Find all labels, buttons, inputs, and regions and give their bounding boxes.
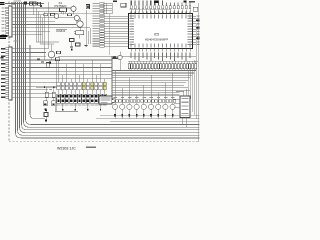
highlight bar column 7 — [82, 82, 85, 89]
IC5 bottom pin 15 — [185, 49, 187, 52]
transistor Q16 — [156, 104, 161, 109]
resistor R71 — [52, 92, 55, 98]
connector CN2 pin 6 — [6, 67, 9, 69]
IC5 left pin 3 with net label — [104, 7, 112, 9]
wire CN1 pin 8 net — [12, 30, 50, 32]
wire Q12 emitter down — [128, 109, 130, 118]
transistor Q18 column feed — [172, 73, 174, 104]
wire IC7 left leads — [173, 98, 180, 100]
wire bottom bus extra b — [100, 115, 200, 117]
resistor R2-12 highlighted — [103, 86, 106, 89]
IC5 top edge pin pads — [131, 11, 132, 13]
resistor RA0-8 — [148, 64, 150, 69]
resistor RB8a — [169, 100, 172, 103]
component block S2 — [61, 94, 65, 103]
resistor RB7b — [166, 100, 169, 103]
label Q10 — [114, 97, 117, 98]
IC5 bottom pin 6 — [150, 49, 152, 52]
IC5 left pin 6 with net label — [104, 15, 128, 17]
IC5 left pin 16 with net label — [104, 40, 128, 42]
resistor R1-8 — [86, 82, 89, 85]
connector CN1 pin 4 — [6, 17, 9, 19]
component small box right of IC6 — [113, 99, 116, 103]
wire vertical drop B — [38, 11, 40, 41]
IC5 left pin 11 with net label — [104, 28, 128, 30]
connector CN2 pin 13 — [6, 93, 9, 95]
label Q14 — [142, 97, 145, 98]
resistor RB4a — [141, 100, 144, 103]
diode D4 — [118, 55, 122, 59]
transistor Q17 — [163, 104, 168, 109]
wire mid bus line M0 — [58, 55, 196, 57]
transistor Q13 column feed — [136, 95, 138, 104]
wire CN2 pin 3 net — [12, 55, 46, 57]
transistor Q12 — [127, 104, 132, 109]
wire bus left of IC5 c — [109, 14, 111, 55]
IC5 left pin 12 with net label — [104, 30, 128, 32]
pad IC5 right bold A — [196, 19, 199, 21]
wire CN1 pin 2 net — [12, 10, 64, 12]
wire row1 stubs 11 — [100, 85, 102, 88]
component block S3 — [65, 94, 69, 103]
IC5 top pin 5 — [146, 9, 148, 13]
left edge pad mark E — [0, 57, 3, 59]
connector CN1 pin 6 — [6, 24, 9, 26]
wire lower cluster drops — [46, 98, 48, 101]
wire row1 stubs 6 — [79, 85, 81, 88]
IC5 top pin 12 — [173, 9, 175, 13]
wire right edge vertical d — [192, 66, 194, 112]
IC5 bottom pin 14 — [181, 49, 183, 52]
resistor R62 — [44, 14, 48, 16]
resistor R1-11 — [99, 82, 102, 85]
wire drop x56b — [55, 97, 57, 111]
pad mark top-right A — [154, 1, 159, 3]
wire mid bus line M11 — [112, 94, 180, 96]
resistor R2-6 — [78, 86, 81, 89]
resistor R1-9 highlighted — [91, 82, 94, 85]
transistor Q12 column feed — [128, 78, 130, 104]
resistor RB7a — [162, 100, 165, 103]
resistor R63 — [51, 13, 55, 15]
crystal X3 — [76, 31, 84, 35]
wire CN1 pin 5 net — [12, 20, 55, 22]
wire IC7 top leads — [182, 91, 184, 96]
connector CN1 pin 5 — [6, 20, 9, 22]
connector CN1 pin 9 — [6, 34, 9, 36]
wire bottom bus extra a — [110, 121, 200, 123]
IC5 top pin 3 — [138, 9, 140, 13]
IC5 right pin 9 with net label — [193, 36, 196, 38]
wire Q3 leads — [79, 18, 81, 21]
wire bottom bus extra c — [96, 118, 200, 120]
capacitor C13 — [44, 113, 48, 117]
IC5 left pin 5 with net label — [104, 12, 112, 14]
resistor R70 — [45, 92, 48, 98]
IC5 top pin 4 — [142, 9, 144, 13]
wire row1 stubs 10 — [95, 85, 97, 88]
resistor RA0-4 — [137, 64, 139, 69]
label Q17 — [164, 97, 167, 98]
wire vertical drop D — [42, 18, 44, 45]
label block S2 — [61, 105, 65, 106]
wire right edge vertical c — [194, 60, 196, 115]
wire column feed 7 — [83, 64, 85, 83]
pad mark G1 — [71, 49, 73, 51]
pad mark top — [24, 2, 27, 5]
IC5 right pin 5 with net label — [193, 25, 196, 27]
IC5 top pin 11 — [169, 9, 171, 13]
resistor RB6b — [159, 100, 162, 103]
connector CN2 pin 4 — [6, 59, 9, 61]
connector CN2 pin 10 — [6, 81, 9, 83]
resistor RA0-10 — [154, 64, 156, 69]
connector CN1 body — [9, 6, 12, 37]
component block S4 — [69, 94, 73, 103]
IC5 left pin 8 with net label — [104, 20, 128, 22]
wire row1 stubs 8 — [87, 85, 89, 88]
pad mark Q5 — [49, 62, 51, 64]
component block S5 — [73, 94, 77, 103]
resistor RB2a — [126, 100, 129, 103]
IC5 bottom pin 3 — [138, 49, 140, 52]
resistor R1-2 — [61, 82, 64, 85]
pad Q16 — [157, 114, 159, 117]
resistor R2-5 — [74, 86, 77, 89]
wire Q4 leads — [73, 5, 75, 6]
IC5 left pin 18 with net label — [104, 45, 128, 47]
IC5 right pin 10 with net label — [193, 38, 196, 40]
wire row1 stubs 4 — [70, 85, 72, 88]
resistor R1-6 — [78, 82, 81, 85]
wire mid bus line M1 — [112, 70, 196, 72]
pad Q15 — [150, 114, 152, 117]
label block S3 — [65, 105, 69, 106]
wire row1 stubs 3 — [66, 85, 68, 88]
wire mid bus line M2 — [112, 72, 194, 74]
IC5 inner pin name fringe left — [130, 16, 135, 17]
resistor RA0-16 — [172, 64, 174, 69]
wire row1 stubs 5 — [74, 85, 76, 88]
connector CN2 body — [9, 47, 12, 100]
wire mid bus line M8 — [112, 87, 188, 89]
connector CN1 pin 1 — [6, 7, 9, 9]
resistor RB5b — [152, 100, 155, 103]
IC5 top pin 8 — [158, 9, 160, 13]
resistor RB4b — [145, 100, 148, 103]
wire right edge vertical e — [190, 69, 192, 100]
resistor R2-7 highlighted — [82, 86, 85, 89]
capacitor C12 — [56, 58, 60, 61]
wire column feed 9 — [91, 60, 93, 82]
wire mid bus line M7 — [112, 84, 184, 86]
capacitor C10 — [70, 39, 75, 42]
wire right edge vertical a — [197, 3, 199, 142]
wire mid bus line M10 — [112, 92, 180, 94]
IC5 top pin 9 — [162, 9, 164, 13]
wire column feed extra c — [55, 60, 57, 82]
component box R60 top-left — [30, 2, 33, 5]
transistor Q15 — [148, 104, 153, 109]
wire CN1 pin 6 net — [12, 24, 76, 26]
IC5 bottom pin 16 — [189, 49, 191, 52]
pad mark top-right C — [189, 1, 195, 2]
IC IC6 box — [99, 96, 112, 104]
wire Q17 emitter down — [164, 109, 166, 118]
wire row1 stubs 12 — [104, 85, 106, 88]
connector CN2 pin 7 — [6, 70, 9, 72]
label below CN1 — [14, 41, 19, 42]
IC5 bottom pin 10 — [165, 49, 167, 52]
connector CN1 pin 3 — [6, 14, 9, 16]
ground symbol G5 — [113, 56, 116, 58]
IC5 inner pin name fringe top — [131, 15, 132, 19]
wire column feed 2 — [62, 75, 64, 82]
IC5 top pin 14 — [181, 9, 183, 13]
IC5 left pin 13 with net label — [104, 33, 128, 35]
resistor R1-4 — [70, 82, 73, 85]
IC5 right pin 6 with net label — [193, 28, 196, 30]
wire CN2 pin 13 net — [12, 93, 55, 95]
wire bold net at y111 — [55, 110, 78, 112]
wire bus left of IC5 a — [102, 3, 104, 14]
IC5 left pin 7 with net label — [104, 18, 128, 20]
label block S1 — [57, 105, 61, 106]
resistor R2-10 — [95, 86, 98, 89]
svg-text:W2303 1JC: W2303 1JC — [57, 147, 76, 150]
pad Q13 — [136, 114, 138, 117]
resistor RA0-23 — [192, 64, 194, 69]
resistor RA0-1 — [128, 64, 130, 69]
wire Q10 emitter down — [114, 109, 116, 118]
resistor RA0-19 — [180, 64, 182, 69]
wire CN2 pin 14 net — [12, 96, 56, 98]
wire column feed 8 — [87, 79, 89, 83]
wire Q11 emitter down — [121, 109, 123, 118]
wire bus left of IC5 b — [105, 3, 107, 14]
IC IC5 HD404339 body — [129, 14, 193, 49]
label Q18 — [171, 97, 174, 98]
wire mid bus line M3 — [112, 74, 192, 76]
resistor R2-11 — [99, 86, 102, 89]
wire right edge vertical b — [196, 24, 198, 119]
IC5 top pin 16 — [189, 9, 191, 13]
highlight bar column 9 — [91, 82, 94, 89]
wire vertical bus line V6 with corner to bottom bus — [26, 2, 200, 124]
pad Q18 — [172, 114, 174, 117]
transistor Q1 — [54, 14, 59, 19]
transistor Q15 column feed — [150, 75, 152, 104]
label Q12 — [128, 97, 131, 98]
svg-text:IC5: IC5 — [154, 33, 159, 37]
resistor RA0-12 — [160, 64, 162, 69]
IC5 right pin 2 with net label — [193, 18, 196, 20]
component box on top rail A — [12, 2, 15, 5]
transistor Q10 — [112, 104, 117, 109]
resistor RB0a — [112, 100, 115, 103]
svg-text:HD404339 B66FP: HD404339 B66FP — [145, 37, 169, 41]
IC5 bottom pin 4 — [142, 49, 144, 52]
IC5 top pin 13 — [177, 9, 179, 13]
component block S9 — [90, 94, 94, 103]
component box above IC5 left — [121, 3, 126, 7]
pad mark top-right B — [184, 1, 187, 3]
resistor RB6a — [155, 100, 158, 103]
wire CN1 pin 1 net — [12, 7, 71, 9]
wire block S5 stub — [74, 103, 76, 109]
wire vertical bus line V2 with corner to bottom bus — [18, 2, 200, 135]
wire resistor array common rail — [128, 60, 198, 62]
label cluster DA5 — [36, 41, 59, 42]
pad mark top near IC5 — [113, 1, 117, 2]
IC5 left pin 9 with net label — [104, 23, 128, 25]
IC5 top pin 1 — [130, 9, 132, 13]
wire vertical line V8 — [33, 5, 35, 14]
panel border dashed left — [8, 2, 10, 142]
label block S11 — [99, 105, 103, 106]
wire CN2 pin 7 net — [12, 70, 112, 72]
wire column feed 5 — [74, 60, 76, 82]
wire block S2 stub — [62, 103, 64, 109]
transistor Q2 — [74, 15, 79, 20]
resistor RA0-17 — [174, 64, 176, 69]
wire vertical drop A — [35, 8, 37, 41]
IC5 top pin 6 — [150, 9, 152, 13]
resistor RA0-11 — [157, 64, 159, 69]
highlight bar column 12 — [103, 82, 106, 89]
wire vertical bus line V5 with corner to bottom bus — [24, 2, 200, 127]
wire lower cluster rail — [36, 86, 58, 88]
wire vertical bus line V3 with corner to bottom bus — [20, 2, 200, 132]
label Q16 — [157, 97, 160, 98]
wire column feed 1 — [58, 60, 60, 82]
transistor Q14 — [141, 104, 146, 109]
label block S4 — [69, 105, 73, 106]
wire column feed 10 — [95, 75, 97, 82]
IC5 right pin 1 with net label — [193, 15, 196, 17]
wire misc vertical c — [87, 31, 89, 44]
ground symbol G3 — [37, 58, 40, 60]
resistor RA0-20 — [183, 64, 185, 69]
wire mid bus line M5 — [112, 79, 188, 81]
wire mid bus line M4 — [112, 77, 190, 79]
label above IC7 — [176, 91, 184, 92]
component block S8 — [86, 94, 90, 103]
ground symbol G2 — [85, 45, 88, 47]
wire top rail — [5, 3, 44, 5]
connector CN2 pin 9 — [6, 78, 9, 80]
wire row1 stubs 2 — [62, 85, 64, 88]
resistor RB3a — [133, 100, 136, 103]
pad Q11 — [121, 114, 123, 117]
transistor Q14 column feed — [143, 85, 145, 104]
wire right edge vertical f — [188, 71, 190, 96]
resistor RA0-9 — [151, 64, 153, 69]
panel border dashed bottom — [9, 141, 200, 143]
connector CN2 pin 11 — [6, 85, 9, 87]
wire row1 stubs 7 — [83, 85, 85, 88]
IC5 bottom pin 5 — [146, 49, 148, 52]
wire X4 pins — [60, 11, 62, 13]
IC5 inner pin name fringe bottom — [131, 43, 132, 47]
IC5 bottom pin 2 — [134, 49, 136, 52]
component block S12 — [103, 94, 107, 103]
transistor Q11 column feed — [121, 88, 123, 105]
IC5 right pin 3 with net label — [193, 20, 196, 22]
wire vertical drop C — [40, 15, 42, 45]
wire column feed extra b — [47, 2, 49, 49]
label R70 — [49, 89, 52, 90]
connector CN1 pin 7 — [6, 27, 9, 29]
component block S7 — [82, 94, 86, 103]
wire drop x55 — [54, 94, 56, 112]
IC5 bottom pin 12 — [173, 49, 175, 52]
wire CN2 pin 6 net — [12, 66, 112, 68]
resistor RA0-24 — [195, 64, 197, 69]
wire CN2 pin 4 net — [12, 59, 112, 61]
wire vertical bus line V4 with corner to bottom bus — [22, 2, 200, 130]
component box R61 — [33, 2, 36, 5]
wire Q13 emitter down — [136, 109, 138, 118]
wire row1 stubs 1 — [58, 85, 60, 88]
connector CN2 pin 1 — [6, 48, 9, 50]
label block S5 — [74, 105, 78, 106]
wire above IC5 pins — [130, 8, 172, 10]
wire block S8 stub — [87, 103, 89, 109]
transistor Q5 — [48, 51, 55, 58]
left edge pad mark A — [0, 2, 5, 3]
IC IC7 box — [180, 96, 190, 118]
pad lower cluster — [45, 108, 47, 110]
wire Q2 leads — [76, 14, 78, 17]
resistor RA0-2 — [131, 64, 133, 69]
wire misc vertical a — [85, 10, 87, 46]
IC5 left pin 4 with net label — [104, 10, 112, 12]
wire vertical bus line V7 with corner to bottom bus — [30, 45, 45, 119]
wire block S11 stub — [100, 103, 102, 109]
diode D3 — [46, 63, 49, 68]
wire column feed 6 — [79, 75, 81, 82]
pad Q12 — [129, 114, 131, 117]
wire column feed extra a — [43, 12, 45, 60]
resistor R2-3 — [65, 86, 68, 89]
wire Q18 emitter down — [172, 109, 174, 118]
capacitor C15 — [52, 101, 56, 106]
pad Q10 — [114, 114, 116, 117]
IC5 bottom pin 1 — [130, 49, 132, 52]
resistor R2-4 — [70, 86, 73, 89]
IC5 right pin 7 with net label — [193, 31, 196, 33]
label block S8 — [86, 105, 90, 106]
resistor R1-5 — [74, 82, 77, 85]
resistor R1-12 highlighted — [103, 82, 106, 85]
wire column feed 3 — [66, 64, 68, 83]
connector CN2 pin 12 — [6, 89, 9, 91]
wire column feed 12 — [104, 79, 106, 83]
IC5 bottom pin 13 — [177, 49, 179, 52]
IC5 right pin 11 with net label — [193, 41, 196, 43]
pad mark top rail right end — [40, 5, 42, 7]
wire CN2 pin 10 net — [12, 81, 56, 83]
transistor Q16 column feed — [157, 93, 159, 105]
label block S7 — [82, 105, 86, 106]
IC5 top pin 2 — [134, 9, 136, 13]
wire Q5 leads — [51, 45, 53, 52]
resistor R1-1 — [57, 82, 60, 85]
resistor RA0-14 — [166, 64, 168, 69]
IC5 left pin 1 with net label — [104, 2, 112, 4]
wire mid bus line M6 — [112, 82, 186, 84]
